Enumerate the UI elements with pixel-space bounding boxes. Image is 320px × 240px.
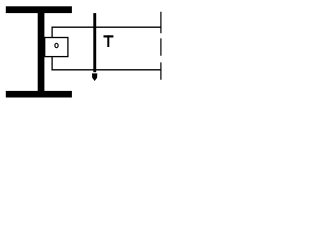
column top flange xyxy=(6,6,72,13)
dashed break line xyxy=(160,12,162,80)
wire beam end line xyxy=(51,27,53,71)
bolt hole xyxy=(55,43,58,47)
column bottom flange xyxy=(6,91,72,98)
label T xyxy=(104,35,114,47)
section line xyxy=(93,13,96,72)
column web xyxy=(38,13,45,91)
wire beam bottom line xyxy=(52,69,162,71)
arrowhead down xyxy=(92,73,97,81)
plate with bolt hole xyxy=(45,38,68,57)
wire beam top line xyxy=(52,26,162,28)
